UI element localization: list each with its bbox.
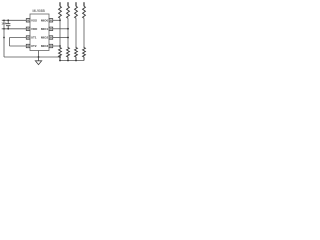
- pin number mark: [27, 37, 28, 39]
- node rail-row3 junction: [3, 37, 5, 39]
- node row2-col2 junction: [67, 28, 69, 30]
- wire row2 left (VDD): [2, 28, 27, 30]
- svg-text:MIO3: MIO3: [41, 44, 49, 48]
- wire IC ground stub: [38, 51, 40, 58]
- pin box left 2: [26, 27, 30, 30]
- svg-text:XT2: XT2: [31, 44, 37, 48]
- wire row3 left (XIN): [10, 37, 27, 39]
- resistor R7 pull-down col3: [75, 47, 78, 61]
- wire bottom rail: [60, 60, 84, 62]
- svg-text:XT1: XT1: [31, 36, 37, 40]
- node rail-col1 junction: [59, 60, 61, 62]
- IC U1 body: [30, 14, 49, 51]
- supply bar column 3: [75, 2, 77, 7]
- supply bar column 2: [67, 2, 69, 7]
- wire row2 right (MIO1 to col2): [53, 28, 68, 30]
- svg-text:VDD: VDD: [31, 27, 38, 31]
- resistor R8 pull-down col4: [83, 47, 86, 61]
- resistor R1 pull-up col1: [59, 6, 62, 18]
- pin number mark: [27, 28, 28, 30]
- pin box right 8: [49, 19, 53, 22]
- wire col4 vertical: [83, 18, 85, 47]
- svg-text:MIO1: MIO1: [41, 27, 49, 31]
- wire row1 left (VSS to ground rail): [2, 19, 27, 21]
- pin box left 3: [26, 36, 30, 39]
- wire ground bus horizontal: [4, 56, 60, 58]
- supply bar column 4: [83, 2, 85, 7]
- svg-text:MIO0: MIO0: [41, 18, 49, 22]
- supply bar column 1: [59, 2, 61, 7]
- node rail-col3 junction: [75, 60, 77, 62]
- resistor R4 pull-up col4: [83, 6, 86, 18]
- pin box left 1: [26, 19, 30, 22]
- resistor R6 pull-down col2: [67, 47, 70, 61]
- pin number mark: [27, 45, 28, 47]
- wire col1 vertical: [59, 18, 61, 47]
- node ground bus-col1 junction: [59, 56, 61, 58]
- resistor R2 pull-up col2: [67, 6, 70, 18]
- pin number mark: [50, 20, 51, 22]
- pin number mark: [50, 28, 51, 30]
- pin box left 4: [26, 44, 30, 47]
- wire row3 right (MIO2 to col2): [53, 37, 68, 39]
- pin box right 6: [49, 36, 53, 39]
- resistor R3 pull-up col3: [75, 6, 78, 18]
- wire col3 vertical: [75, 18, 77, 47]
- node row3-col2 junction: [67, 37, 69, 39]
- pin number mark: [50, 45, 51, 47]
- ground symbol: [35, 57, 41, 65]
- node ground stub junction: [38, 56, 40, 58]
- resistor R5 pull-down col1: [59, 47, 62, 61]
- svg-text:MIO2: MIO2: [41, 36, 49, 40]
- wire row4 left (XOUT): [10, 45, 27, 47]
- wire row1 right (MIO0 to col1): [53, 19, 60, 21]
- node rail-row1 junction: [3, 19, 5, 21]
- wire col2 vertical: [67, 18, 69, 47]
- node row1-col1 junction: [59, 19, 61, 21]
- node rail-row2 junction: [3, 28, 5, 30]
- wire row4 right (MIO3 to col1): [53, 45, 60, 47]
- node cap bottom junction: [7, 28, 9, 30]
- node row4-col1 junction: [59, 45, 61, 47]
- wire ground rail left vertical: [3, 20, 5, 57]
- svg-text:104: 104: [1, 22, 6, 26]
- capacitor C1: [6, 20, 10, 29]
- svg-text:VSS: VSS: [31, 18, 37, 22]
- svg-text:ML908B: ML908B: [33, 9, 46, 13]
- pin box right 7: [49, 27, 53, 30]
- pin number mark: [50, 37, 51, 39]
- pin number mark: [27, 20, 28, 22]
- node rail-col2 junction: [67, 60, 69, 62]
- pin box right 5: [49, 44, 53, 47]
- node cap top junction: [7, 19, 9, 21]
- wire xtal link vertical: [9, 38, 11, 47]
